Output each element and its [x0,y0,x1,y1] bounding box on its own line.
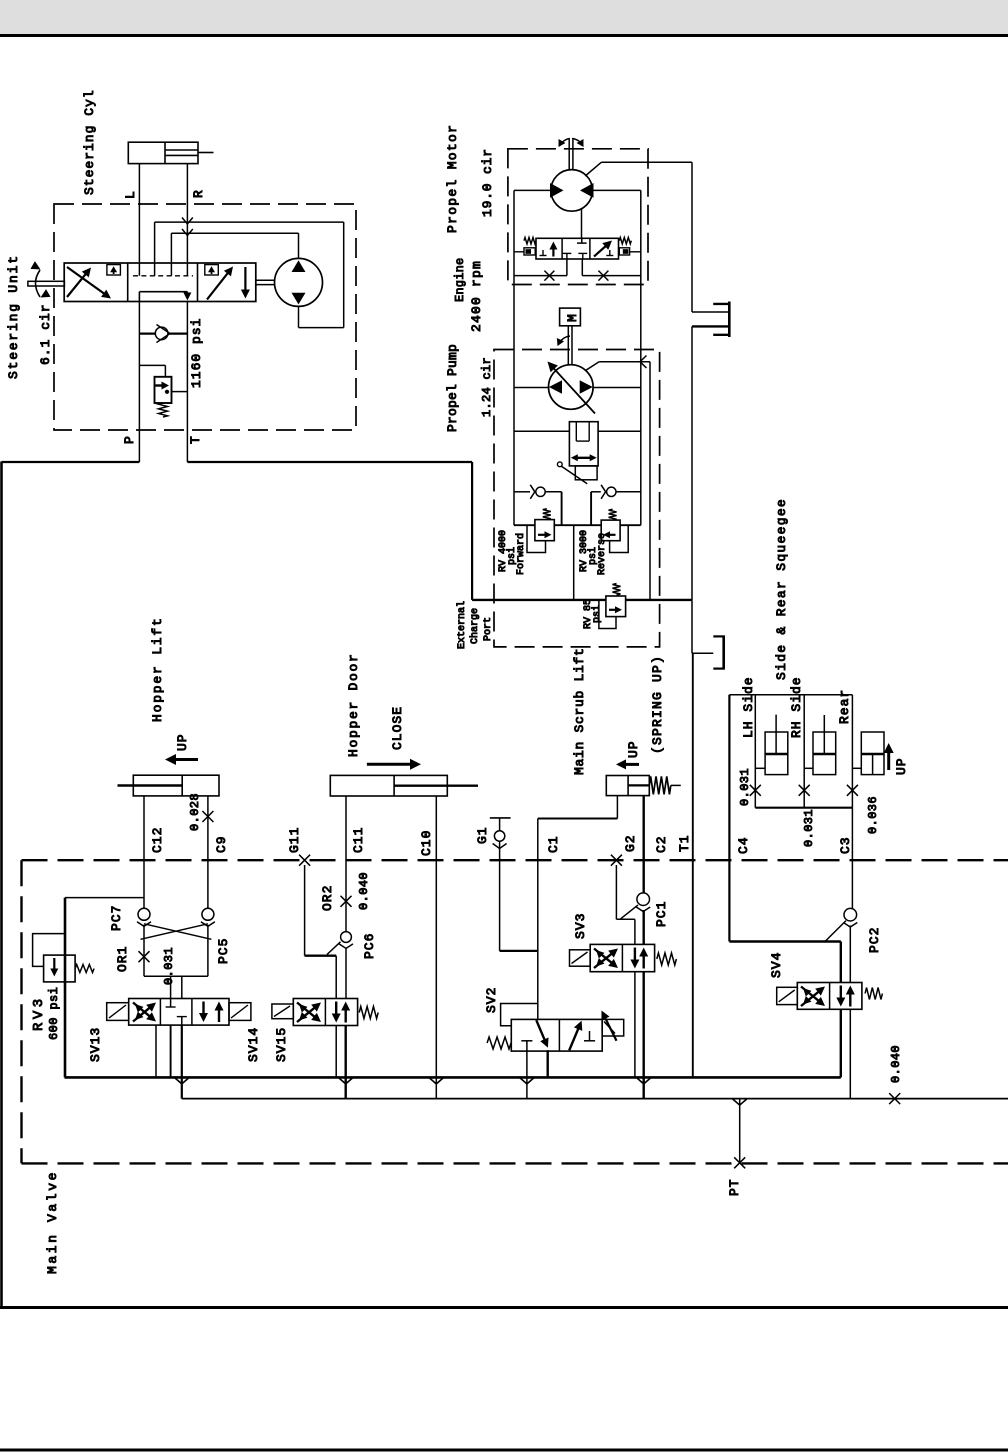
svg-text:C2: C2 [654,835,669,853]
SV15 solenoid [272,1004,293,1019]
label Steering Cyl [82,89,97,195]
flushing valve right cell [594,241,613,257]
SV3 spring [657,953,677,965]
svg-text:C3: C3 [838,836,853,854]
label LH Side [741,676,756,738]
label C2 [654,835,669,853]
svg-text:psi: psi [591,605,603,623]
svg-text:T: T [188,435,203,444]
SV4 cell crossed arrows [801,987,825,1007]
svg-text:External: External [456,601,468,649]
label T1 [677,834,692,852]
wire L line [138,164,140,276]
svg-text:CLOSE: CLOSE [390,706,405,750]
RV3 relief valve [33,934,95,982]
pilot cross lines [141,924,212,940]
SV3 cell arrows [630,948,648,969]
label T [188,435,203,444]
label Hopper Door [346,652,361,757]
PC1 pilot link [616,905,638,919]
return bus lower [182,1093,1008,1104]
svg-text:G1: G1 [475,826,490,844]
wire C9 [202,796,213,909]
label SV15 [274,1027,289,1062]
label OR2 [320,885,335,911]
pump variable arrow [548,362,596,414]
SV2 left cell [521,1020,548,1051]
Rear cylinder [861,732,884,775]
svg-text:0.040: 0.040 [357,872,371,910]
wire C3 [851,808,853,909]
mid drop [573,525,575,600]
SV4 solenoid [777,987,798,1004]
hopper lift UP arrow [165,733,198,765]
svg-text:RH Side: RH Side [789,676,804,738]
SV13 drain stub [155,1025,157,1077]
RH drop [799,695,813,808]
Rear drop [847,695,861,808]
svg-text:PC2: PC2 [867,927,882,953]
header grey bar [0,0,1008,34]
SV2 right cell [569,1021,595,1051]
svg-text:Propel Pump: Propel Pump [445,344,460,432]
label 2400 rpm [469,260,484,332]
wire C1 [537,819,539,1019]
junction arrows on R line [182,218,193,236]
svg-text:C11: C11 [351,827,366,853]
orifice G2 [611,855,622,920]
svg-text:19.0 cir: 19.0 cir [480,148,495,217]
SV15 spring [359,1007,378,1019]
svg-text:PC1: PC1 [654,901,669,927]
svg-text:1.24 cir: 1.24 cir [480,357,494,417]
label PC2 [867,927,882,953]
svg-text:0.031: 0.031 [802,809,816,847]
svg-text:Charge: Charge [469,608,481,644]
check PC6 [339,932,353,949]
label C1 [546,835,561,853]
scrub lift actuator [606,776,649,796]
check PC1 [636,893,650,912]
label 0.040 bus [889,1045,903,1083]
wire SV14 out [174,1025,189,1099]
svg-text:OR2: OR2 [320,885,335,911]
svg-text:Steering Cyl: Steering Cyl [82,89,97,195]
label C4 [736,836,751,854]
label R [191,189,206,198]
gauge G1 [490,818,511,951]
flushing valve wires [514,251,641,253]
hopper lift valve feed [144,976,208,998]
pump check valve reverse [591,485,641,525]
wire SV4 out right C3 [849,1009,851,1098]
relief rail [514,524,641,526]
label RV 4000 psi Forward [498,530,527,575]
steering gerotor link [256,280,275,284]
svg-text:SV13: SV13 [88,1027,103,1062]
label Main Scrub Lift [572,647,587,775]
label PT [727,1178,742,1196]
label 19.0 cir [480,148,495,217]
svg-text:Port: Port [483,617,494,641]
label RV3 [31,995,47,1031]
pump servo cylinder [569,422,598,480]
label P [122,435,137,444]
wire P line [138,302,140,463]
label RV 85 psi [583,599,603,629]
label 0.031 RH [802,809,816,847]
SV13 cell crossed arrows [133,1003,156,1022]
wire C4 [728,695,730,942]
label L [123,190,138,199]
orifice G11 [299,855,310,956]
svg-text:0.031: 0.031 [162,947,176,985]
label PC6 [362,933,377,959]
label RH Side [789,676,804,738]
label Side Rear Squeegee [774,498,789,680]
scrub spring [649,776,681,794]
SV2 metering box [601,1011,623,1041]
svg-text:LH Side: LH Side [741,676,756,738]
pump control lever [557,462,587,484]
motor flushing valve body [536,238,619,259]
svg-text:OR1: OR1 [115,946,130,972]
wire SV13 out [170,1025,172,1077]
steering gerotor motor [275,258,323,306]
svg-text:Engine: Engine [453,258,467,302]
motor valve bottom right [582,259,641,281]
svg-text:SV4: SV4 [769,952,784,978]
svg-text:0.036: 0.036 [866,796,880,834]
label G2 [623,834,638,852]
SV14 cell arrows [199,1002,224,1023]
svg-text:PC6: PC6 [362,933,377,959]
svg-text:G2: G2 [623,834,638,852]
motor valve bottom left [514,259,567,281]
svg-text:0.040: 0.040 [889,1045,903,1083]
footer rule [0,1449,1008,1452]
label 0.036 [866,796,880,834]
label 1.24 cir [480,357,494,417]
wire motor A [514,190,551,525]
steering unit dashed box [54,204,356,430]
wire to tank [692,600,713,653]
wire C11 [341,796,352,932]
SV3 solenoid [570,950,591,966]
left group rail [65,898,144,1078]
label G1 [475,826,490,844]
label OR1 [115,946,130,972]
svg-text:G11: G11 [287,827,302,853]
solenoid valve SV13 SV14 body [129,999,229,1026]
wire PC6 to SV15 [336,948,346,999]
SV2 tank port [519,1050,534,1098]
squeegee UP arrow [884,743,909,775]
propel motor [550,170,594,212]
pump check valve forward [514,485,562,525]
label C11 [351,827,366,853]
propel motor shaft [559,139,584,170]
label Engine [453,258,467,302]
steering valve left cell crossed arrows [67,265,120,299]
label SV4 [769,952,784,978]
label G11 [287,827,302,853]
SV15 cell arrows [332,1002,351,1023]
wire below PC5 [207,925,209,976]
pump case line [586,356,651,600]
main frame top right [187,461,472,463]
check PC5 [201,908,215,926]
steering check valve [139,325,187,343]
main frame top left [2,461,140,463]
label Rear [837,689,852,724]
wire T1 [692,653,694,1077]
label 600 psi [47,987,61,1040]
hopper lift cylinder [118,775,220,796]
solenoid valve SV4 body [797,983,862,1010]
wire below PC7 [139,925,150,976]
label External Charge Port [456,601,494,649]
wire C2 [643,796,645,893]
svg-text:P: P [122,435,137,444]
label 0.031 OR1 [162,947,176,985]
svg-text:SV3: SV3 [573,913,588,939]
label Propel Pump [445,344,460,432]
label Main Valve [45,1170,60,1274]
check PC7 [137,908,151,926]
label PC5 [216,938,231,964]
svg-text:6.1 cir: 6.1 cir [38,303,53,365]
label PC1 [654,901,669,927]
svg-text:Side & Rear Squeegee: Side & Rear Squeegee [774,498,789,680]
C4 link [729,921,846,983]
drain port coupling [692,302,729,601]
svg-text:C9: C9 [214,835,229,853]
SV3 cell crossed arrows [594,949,618,969]
SV2 supply port [547,1050,549,1077]
svg-text:Hopper Lift: Hopper Lift [150,616,165,722]
label C12 [150,827,165,853]
solenoid valve SV3 body [590,944,654,971]
valve SV2 body [511,1019,602,1051]
propel motor case drain [585,162,692,312]
svg-text:SV14: SV14 [246,1027,261,1062]
propel pump [549,365,594,410]
header rule [0,34,1008,37]
label Steering Unit [6,254,21,379]
propel pump dashed box [494,350,660,647]
label Propel Motor [445,124,460,233]
svg-text:PC7: PC7 [109,905,124,931]
svg-text:SV15: SV15 [274,1027,289,1062]
label C9 [214,835,229,853]
svg-text:SV2: SV2 [484,987,499,1013]
RH cylinder [813,715,836,775]
label 0.040 OR2 [357,872,371,910]
wire R line [186,164,188,276]
svg-text:C4: C4 [736,836,751,854]
steering control valve body [64,263,256,302]
svg-text:Hopper Door: Hopper Door [346,652,361,757]
label RV 3000 psi Reverse [579,530,608,575]
wire feedback lower [171,233,298,276]
svg-text:600 psi: 600 psi [47,987,61,1040]
steering relief valve 1160 psi [139,365,187,417]
SV2 spring [487,1037,511,1049]
main frame left [0,462,3,1308]
label SV2 [484,987,499,1013]
SV13 solenoid [107,1003,129,1021]
svg-text:Forward: Forward [515,533,527,575]
svg-text:0.028: 0.028 [188,793,202,831]
wire C10 [429,796,444,1099]
svg-text:1160 psi: 1160 psi [189,318,204,388]
wire feedback upper [155,222,344,328]
LH cylinder [765,715,788,775]
LH drop [750,695,765,808]
svg-text:Rear: Rear [837,689,852,724]
relief valve RV 85 [599,584,626,629]
wire scrub left port [538,796,618,819]
flushing valve left cell [540,242,558,257]
label SV3 [573,913,588,939]
SV4 cell arrows [836,986,855,1007]
label 1160 psi [189,318,204,388]
svg-text:UP: UP [894,757,909,775]
wire SV4 out left [840,1009,842,1077]
engine shaft [557,326,572,365]
label C3 [838,836,853,854]
main valve dashed box [22,860,1008,1163]
wire SV3 out right C2 [636,972,651,1099]
flushing valve solenoids [524,248,630,255]
tank symbol [713,636,725,670]
svg-text:Propel Motor: Propel Motor [445,124,460,233]
svg-text:PT: PT [727,1178,742,1196]
relief valve RV 4000 Forward [527,509,554,553]
steering valve centre cell bypass [133,276,193,302]
svg-text:PC5: PC5 [216,938,231,964]
wire SV3 in [635,910,644,944]
flushing valve centre cell [563,238,588,259]
label C10 [419,830,434,856]
steering cylinder [128,142,213,163]
wire motor B [593,190,641,525]
label SV14 [246,1027,261,1062]
svg-text:Main Scrub Lift: Main Scrub Lift [572,647,587,775]
squeegee top bus [729,694,852,696]
svg-text:(SPRING UP): (SPRING UP) [650,655,665,754]
SV4 spring [865,988,882,1000]
label PC7 [109,905,124,931]
svg-text:UP: UP [626,740,641,758]
return bus upper [65,1076,841,1079]
check PC2 [843,908,857,927]
wire C12 [143,796,145,909]
wire SV15 out right [338,1026,353,1099]
svg-text:UP: UP [175,733,190,751]
label SPRING UP [650,655,665,754]
PT drop [732,1099,747,1169]
svg-text:M: M [565,314,580,322]
steering valve right cell [205,265,250,300]
SV15 cell crossed arrows [297,1003,321,1023]
SV14 solenoid [229,1003,251,1021]
label SV13 [88,1027,103,1062]
wire SV3 out left [634,972,636,1078]
G11 pilot link [305,942,341,956]
wire SV15 out left [335,1026,337,1078]
propel motor dashed box [508,149,648,285]
svg-text:2400 rpm: 2400 rpm [469,260,484,332]
solenoid valve SV15 body [293,999,357,1026]
squeegee collector [755,807,852,809]
svg-text:RV3: RV3 [31,995,47,1031]
hopper door CLOSE arrow [367,706,421,770]
svg-text:L: L [123,190,138,199]
wire PC2 to SV4 [849,926,851,983]
charge port line [472,462,692,600]
svg-text:0.031: 0.031 [738,768,752,806]
svg-text:C1: C1 [546,835,561,853]
main frame bottom [0,1306,1008,1309]
SV2 pilot link [501,1004,538,1026]
label 6.1 cir [38,303,53,365]
svg-text:T1: T1 [677,834,692,852]
svg-text:C10: C10 [419,830,434,856]
label 0.031 LH [738,768,752,806]
scrub UP arrow [616,740,641,769]
SV13 SV14 centre cell [166,999,187,1026]
svg-text:C12: C12 [150,827,165,853]
engine M box [560,308,581,326]
pump port lines [514,388,641,432]
flushing valve springs [524,238,631,244]
relief valve RV 3000 Reverse [601,509,628,552]
label Hopper Lift [150,616,165,722]
svg-text:Main Valve: Main Valve [45,1170,60,1274]
label 0.028 [188,793,202,831]
svg-text:Reverse: Reverse [597,533,608,575]
svg-text:Steering Unit: Steering Unit [6,254,21,379]
svg-text:R: R [191,189,206,198]
hopper door cylinder [330,775,478,796]
wire G1 to C1 [500,950,538,952]
steering wheel shaft [28,261,65,297]
wire motor line down [581,209,583,239]
wire T line [186,302,188,463]
